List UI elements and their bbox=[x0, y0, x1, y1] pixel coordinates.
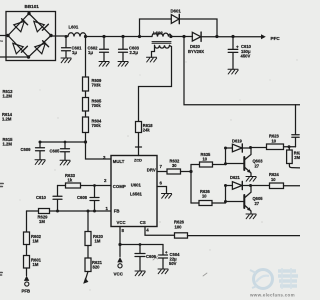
resistor R623 bbox=[267, 144, 284, 150]
capacitor C606 bbox=[135, 245, 145, 272]
ground Q603 bbox=[246, 177, 256, 182]
resistor chain wire from rail bbox=[85, 37, 87, 78]
capacitor C610 comp bbox=[53, 186, 62, 212]
capacitor C608 bbox=[90, 186, 99, 212]
svg-text:C606: C606 bbox=[146, 254, 157, 259]
svg-text:VCC: VCC bbox=[114, 272, 124, 277]
svg-text:L602: L602 bbox=[153, 31, 163, 36]
wire R623 to gate node bbox=[284, 146, 296, 148]
svg-text:27: 27 bbox=[255, 163, 260, 168]
resistor R601 bbox=[24, 256, 30, 269]
svg-text:PFB: PFB bbox=[22, 289, 31, 294]
transformer L602 primary bbox=[152, 33, 171, 36]
wire to R635 bbox=[191, 164, 200, 166]
wire R636 to base node bbox=[212, 202, 226, 204]
svg-text:10: 10 bbox=[271, 177, 276, 182]
svg-text:700k: 700k bbox=[92, 103, 102, 108]
resistor R618 bbox=[136, 122, 142, 133]
resistor R635 bbox=[200, 162, 213, 167]
node PFB terminal bbox=[24, 276, 29, 281]
resistor R632 bbox=[167, 169, 181, 174]
svg-text:BB101: BB101 bbox=[25, 4, 40, 9]
wire to R636 bbox=[191, 202, 199, 204]
ground C605 bbox=[60, 160, 70, 165]
bridge diode upper-left bbox=[14, 19, 28, 32]
svg-text:D621: D621 bbox=[230, 175, 241, 180]
svg-text:703k: 703k bbox=[92, 83, 102, 88]
ground L602 bbox=[147, 57, 157, 62]
diode D601 bbox=[171, 14, 179, 23]
diode D619 bbox=[226, 147, 233, 149]
ground C603 bbox=[118, 62, 128, 67]
resistor R626 bbox=[175, 233, 188, 238]
capacitor to drain rail bbox=[292, 105, 299, 147]
svg-text:C608: C608 bbox=[77, 195, 88, 200]
ground C606 bbox=[135, 271, 145, 276]
wire FB rail bbox=[27, 210, 112, 212]
wire collector node to R623 bbox=[251, 147, 267, 149]
svg-text:10: 10 bbox=[203, 157, 208, 162]
ground Q605 bbox=[246, 214, 256, 219]
svg-text:DRV: DRV bbox=[147, 167, 156, 172]
wire VCC pin 8 bbox=[119, 227, 121, 257]
wire R633 left bbox=[58, 185, 66, 187]
svg-text:1M: 1M bbox=[95, 239, 101, 244]
ground C601 bbox=[61, 58, 71, 63]
wire R618 to ZCD pin bbox=[136, 133, 142, 156]
capacitor C605 bbox=[61, 142, 70, 160]
svg-text:+: + bbox=[165, 250, 168, 255]
svg-text:~: ~ bbox=[0, 39, 3, 45]
ground C610 bbox=[228, 69, 238, 74]
resistor R629 bbox=[39, 209, 50, 214]
svg-text:FB: FB bbox=[114, 208, 120, 213]
svg-text:MULT: MULT bbox=[113, 159, 125, 164]
node bridge corners bbox=[6, 12, 52, 59]
svg-text:1k: 1k bbox=[68, 178, 73, 183]
watermark logo bbox=[249, 268, 298, 298]
svg-text:1M: 1M bbox=[39, 219, 45, 224]
capacitor C602 bbox=[100, 37, 109, 62]
svg-text:700k: 700k bbox=[92, 123, 102, 128]
svg-text:BYV29X: BYV29X bbox=[188, 49, 204, 54]
wire arrow out bbox=[86, 272, 88, 280]
wire bbox=[85, 91, 87, 98]
svg-text:1μ: 1μ bbox=[72, 50, 77, 55]
bridge diamond bbox=[8, 14, 51, 58]
svg-text:100: 100 bbox=[175, 224, 183, 229]
wire CS pin 4 bbox=[145, 227, 175, 236]
wire drain rail down and right bbox=[184, 37, 300, 105]
svg-text:1.2M: 1.2M bbox=[2, 116, 12, 121]
transistor Q605 bbox=[226, 201, 244, 203]
capacitor C601 bbox=[62, 37, 71, 59]
svg-text:C610: C610 bbox=[36, 195, 47, 200]
svg-text:1μ: 1μ bbox=[88, 50, 93, 55]
wire MULT rail bbox=[40, 142, 111, 159]
wire GND pin 6 bbox=[157, 187, 167, 194]
wire D620 to output node bbox=[201, 36, 261, 38]
svg-text:24k: 24k bbox=[143, 128, 151, 133]
inductor L601 bbox=[68, 33, 86, 37]
svg-text:30: 30 bbox=[172, 163, 177, 168]
wire R632 to split node bbox=[181, 165, 192, 204]
resistor R627 bbox=[288, 147, 290, 150]
svg-text:1M: 1M bbox=[33, 239, 39, 244]
wire main rail L601 to L602 bbox=[86, 36, 152, 38]
svg-text:D619: D619 bbox=[232, 138, 243, 143]
wire DRV pin 7 bbox=[157, 171, 167, 173]
svg-text:10: 10 bbox=[272, 138, 277, 143]
wire bbox=[85, 111, 87, 117]
wire COMP pin 2 bbox=[81, 185, 112, 187]
ground C609 bbox=[35, 160, 45, 165]
capacitor C609 bbox=[36, 142, 45, 160]
transformer L602 secondary bbox=[155, 45, 170, 48]
wire VCC rail bbox=[120, 244, 163, 246]
capacitor C603 bbox=[119, 37, 128, 62]
transformer L602 core bbox=[152, 42, 171, 44]
wire ZCD path bbox=[139, 46, 172, 122]
ground C604 bbox=[158, 269, 168, 274]
diode D621 bbox=[226, 185, 233, 187]
wire Q605 base-left vertical bbox=[225, 186, 227, 202]
svg-text:C605: C605 bbox=[50, 149, 61, 154]
wire main rail bridge to L601 bbox=[51, 35, 68, 37]
svg-text:VCC: VCC bbox=[117, 220, 126, 225]
capacitor C610 bbox=[228, 37, 238, 70]
svg-text:27: 27 bbox=[255, 201, 260, 206]
node VCC terminal bbox=[117, 257, 122, 262]
arrow PFC out bbox=[261, 34, 266, 39]
resistor R605 bbox=[83, 98, 89, 112]
svg-text:L601: L601 bbox=[69, 25, 79, 30]
svg-text:U601: U601 bbox=[131, 182, 142, 187]
svg-text:1M: 1M bbox=[33, 262, 39, 267]
svg-text:450V: 450V bbox=[241, 54, 251, 59]
svg-text:CS: CS bbox=[140, 220, 146, 225]
svg-text:+: + bbox=[236, 45, 239, 50]
svg-text:C609: C609 bbox=[21, 147, 32, 152]
wire R624 out right bbox=[284, 185, 301, 187]
resistor R636 bbox=[199, 201, 212, 206]
op-amp U601 IC box bbox=[111, 156, 157, 227]
wire collector node to R624 bbox=[251, 185, 270, 187]
resistor R633 bbox=[66, 183, 81, 188]
wire AC input L bbox=[0, 35, 8, 37]
wire chain to MULT node bbox=[85, 133, 87, 143]
resistor R604 bbox=[83, 117, 89, 133]
ground C602 bbox=[99, 62, 109, 67]
svg-text:www.elecfans.com: www.elecfans.com bbox=[249, 293, 295, 298]
resistor R624 bbox=[270, 183, 284, 189]
wire bypass loop up bbox=[140, 19, 218, 37]
ground pin6 bbox=[162, 194, 172, 199]
wire rail to D620 bbox=[171, 36, 193, 38]
diode D620 BYV29X bbox=[192, 32, 201, 41]
resistor R620 bbox=[85, 232, 91, 246]
bridge rectifier BB101 box bbox=[6, 12, 56, 61]
bridge diode upper-right bbox=[34, 21, 49, 32]
svg-text:2.2μ: 2.2μ bbox=[130, 50, 139, 55]
svg-text:D601: D601 bbox=[171, 9, 182, 14]
svg-text:2M: 2M bbox=[294, 155, 300, 160]
transistor Q603 bbox=[226, 163, 244, 165]
wire divider down bbox=[26, 211, 28, 232]
svg-text:COMP: COMP bbox=[113, 184, 126, 189]
wire R635 to base node bbox=[213, 164, 226, 166]
wire L602 secondary left to ground bbox=[152, 46, 155, 58]
resistor R609 bbox=[83, 77, 89, 91]
svg-text:ZCD: ZCD bbox=[134, 157, 142, 162]
svg-text:1.2M: 1.2M bbox=[3, 141, 13, 146]
bridge diode lower-left bbox=[13, 43, 28, 54]
svg-text:PFC: PFC bbox=[271, 36, 281, 41]
capacitor C604 bbox=[159, 245, 168, 270]
svg-text:1.2M: 1.2M bbox=[3, 93, 13, 98]
resistor R602 bbox=[24, 232, 30, 245]
node dots on main rail bbox=[65, 35, 235, 38]
wire AC input N bbox=[0, 56, 29, 58]
wire R620 branch bbox=[87, 211, 89, 232]
bridge diode lower-right bbox=[35, 41, 49, 54]
wire bbox=[26, 245, 28, 256]
stray scan smudges bbox=[0, 184, 3, 276]
node dots mid section bbox=[39, 140, 291, 246]
svg-text:820: 820 bbox=[93, 265, 101, 270]
resistor R621 bbox=[85, 258, 91, 272]
svg-text:50V: 50V bbox=[169, 261, 177, 266]
wire Q603 base-left vertical bbox=[225, 148, 227, 165]
svg-text:10: 10 bbox=[202, 194, 207, 199]
svg-text:L6561: L6561 bbox=[130, 192, 143, 197]
wire to PFB terminal bbox=[26, 268, 28, 276]
wire bbox=[87, 246, 89, 259]
wire CS out right bbox=[188, 235, 301, 237]
